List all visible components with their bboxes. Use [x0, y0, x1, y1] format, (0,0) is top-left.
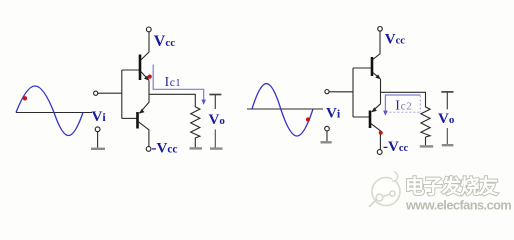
svg-text:-Vcc: -Vcc	[152, 140, 178, 156]
transistor Q3 (NPN, top right)	[372, 31, 381, 79]
wire: to Q3 base	[353, 67, 372, 69]
input terminal (right)	[325, 90, 329, 94]
wire: to Q4 base	[353, 116, 370, 118]
wire: lower terminal to ground (right)	[326, 131, 328, 141]
resistor RL (right)	[421, 105, 430, 137]
-Vcc terminal (right)	[377, 150, 382, 155]
transistor Q2 (PNP, bottom left)	[138, 102, 150, 147]
wire: resistor to ground (right)	[425, 137, 427, 145]
wire: to Q1 base	[122, 69, 140, 71]
ground under resistor (left)	[190, 147, 203, 149]
wire: emitter rail (right)	[380, 79, 382, 104]
transistor Q4 (PNP, bottom right)	[370, 104, 381, 150]
wire: resistor to ground (left)	[194, 140, 196, 148]
node: input signal axis (left)	[16, 112, 92, 114]
svg-text:Ic1: Ic1	[165, 75, 182, 90]
ground below input (right)	[321, 141, 332, 143]
ground below input (left)	[91, 148, 105, 150]
svg-text:Vo: Vo	[438, 111, 455, 127]
arrowhead Ic2	[383, 111, 388, 116]
watermark logo circle	[369, 172, 400, 208]
Vo probe bottom stem and ground (left)	[210, 130, 223, 149]
input lower terminal (right)	[325, 126, 330, 131]
current path Ic2 box (blue)	[385, 95, 420, 112]
sine wave vi (right source waveform)	[252, 84, 313, 136]
Vo probe bottom stem and ground (right)	[442, 128, 454, 145]
wire: output node to load (left)	[149, 94, 195, 104]
wire: input terminal to common base (right)	[329, 91, 353, 93]
red dot at Q1 emitter (left)	[148, 75, 152, 79]
watermark text 电子发烧友	[405, 175, 499, 198]
Vo probe top bar (right)	[441, 92, 453, 109]
sine wave vi (left source waveform)	[16, 86, 83, 136]
svg-text:Vo: Vo	[209, 112, 226, 128]
red dot on collector wire (right)	[379, 131, 383, 135]
Vcc terminal (left)	[146, 27, 151, 32]
wire: lower terminal to ground (left)	[97, 132, 99, 148]
Vcc terminal (right)	[378, 27, 383, 32]
wire: common base vertical	[121, 70, 123, 118]
wire: output node to load (right)	[381, 92, 426, 105]
current path Ic1 (blue)	[153, 65, 204, 102]
-Vcc terminal (left)	[146, 147, 151, 152]
red dot marker on negative half-cycle (right)	[306, 117, 310, 121]
input lower terminal (left)	[95, 127, 100, 132]
node: input signal axis (right)	[247, 108, 323, 110]
resistor RL (left)	[191, 105, 200, 140]
watermark url www.elecfans.com	[405, 197, 512, 213]
svg-text:电子发烧友: 电子发烧友	[405, 175, 499, 198]
svg-text:Vi: Vi	[92, 109, 107, 125]
Vo probe top bar (left)	[209, 95, 221, 110]
ground under resistor (right)	[420, 145, 433, 147]
arrowhead Ic1	[201, 100, 206, 105]
input terminal (left)	[94, 91, 98, 95]
wire: input terminal to common base	[98, 92, 122, 94]
svg-text:www.elecfans.com: www.elecfans.com	[405, 197, 511, 212]
svg-text:Ic2: Ic2	[395, 99, 412, 114]
transistor Q1 (NPN, top left)	[140, 32, 149, 81]
red dot marker on positive half-cycle (left)	[23, 96, 27, 100]
wire: emitter rail (left)	[148, 81, 150, 102]
wire: to Q2 base	[122, 117, 138, 119]
wire: common base vertical (right)	[352, 68, 354, 117]
svg-text:Vi: Vi	[326, 106, 341, 122]
